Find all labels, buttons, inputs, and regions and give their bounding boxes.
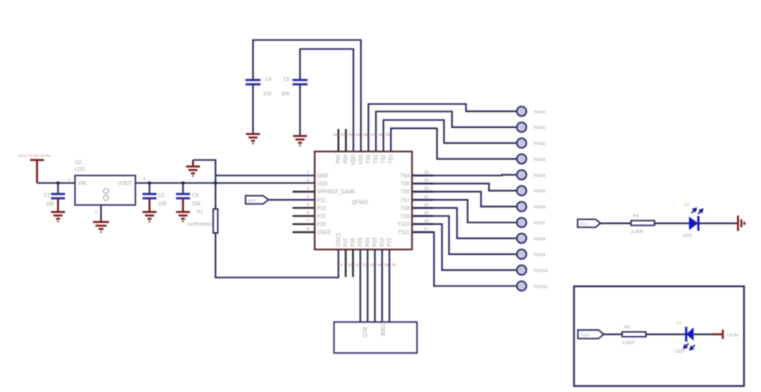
IC top rotated labels (336, 154, 395, 165)
svg-text:26: 26 (378, 132, 383, 137)
svg-text:31: 31 (340, 132, 345, 137)
node junction R1 (214, 181, 217, 184)
svg-text:12: 12 (362, 262, 367, 267)
svg-text:R5: R5 (624, 325, 630, 330)
svg-text:LED: LED (675, 349, 685, 354)
svg-text:25: 25 (385, 132, 390, 137)
svg-text:PAD9: PAD9 (534, 252, 546, 257)
svg-text:TS9: TS9 (400, 214, 409, 220)
capacitor C1 (44, 183, 65, 211)
pad PAD3 (517, 154, 546, 164)
power input VCC label (18, 153, 51, 158)
wire R2 to LED (655, 222, 690, 224)
svg-text:PAD4: PAD4 (534, 173, 546, 178)
svg-text:22: 22 (424, 186, 429, 191)
svg-text:R1: R1 (197, 210, 204, 216)
svg-text:104: 104 (192, 202, 201, 208)
wire pin27 to PAD1 (376, 112, 517, 152)
svg-text:TS3: TS3 (389, 154, 395, 163)
svg-text:PAD0: PAD0 (534, 109, 546, 114)
IC right pin numbers (424, 170, 429, 232)
svg-text:PAD1: PAD1 (534, 125, 546, 130)
capacitor C5 rail (300, 49, 353, 152)
pin stub 7 (293, 223, 315, 225)
demo box frame (574, 286, 744, 386)
ground rotated right (738, 216, 744, 232)
svg-text:32: 32 (333, 132, 338, 137)
wire TS9 to PAD9 (412, 216, 517, 254)
wire flag to pin4 (269, 199, 315, 201)
node junction C3 (181, 181, 184, 184)
svg-text:P25: P25 (358, 237, 364, 246)
svg-text:TS8: TS8 (400, 206, 409, 212)
svg-text:17: 17 (424, 226, 429, 231)
svg-text:LDO: LDO (75, 167, 85, 173)
wires bottom pins to connector (360, 250, 389, 323)
svg-text:TS4: TS4 (400, 174, 409, 180)
wire TS11 to PAD11 (412, 232, 517, 286)
pad PAD6 (517, 202, 546, 212)
ground elbow symbol (186, 160, 200, 177)
wire TS7 to PAD7 (412, 200, 517, 223)
svg-text:C5: C5 (283, 77, 290, 83)
svg-text:TS7: TS7 (400, 198, 409, 204)
wire flag to R2 (601, 222, 632, 224)
wire TS4 to PAD4 (412, 174, 517, 177)
net flag RST (246, 196, 269, 204)
svg-text:104: 104 (281, 92, 290, 98)
IC left pin numbers (307, 170, 310, 232)
svg-text:28: 28 (363, 132, 368, 137)
wire ground elbow (193, 160, 216, 183)
svg-text:BCD: BCD (361, 327, 367, 338)
MCU U1 QFN32 (315, 152, 412, 250)
svg-text:P11: P11 (317, 198, 326, 204)
svg-text:P21: P21 (387, 237, 393, 246)
svg-text:CODE: CODE (379, 322, 385, 337)
svg-text:21: 21 (424, 194, 429, 199)
svg-text:D2: D2 (684, 202, 690, 207)
pin stub 5 (293, 207, 315, 209)
pad PAD0 (517, 107, 546, 117)
IC bottom pin numbers (340, 262, 396, 267)
pad PAD2 (517, 138, 546, 148)
wire R1 to IC bottom pin (216, 233, 339, 278)
svg-text:TS11: TS11 (398, 230, 410, 236)
svg-text:P22: P22 (380, 237, 386, 246)
svg-text:PAD7: PAD7 (534, 221, 546, 226)
pin stub 3 (293, 191, 315, 193)
IC right pin stubs (412, 176, 433, 233)
svg-text:TS6: TS6 (400, 190, 409, 196)
svg-text:PAD3: PAD3 (534, 157, 546, 162)
svg-text:TS1: TS1 (374, 154, 380, 163)
regulator U2 LDO (68, 160, 146, 214)
ground under U2 (93, 222, 109, 233)
svg-text:VDD: VDD (317, 182, 328, 188)
svg-text:30: 30 (348, 132, 353, 137)
ground under C2 (143, 212, 157, 222)
wire TS6 to PAD6 (412, 192, 517, 207)
power bar +3.3V (723, 330, 739, 339)
svg-text:U2: U2 (75, 160, 82, 166)
node junction C2 (148, 181, 151, 184)
wire power to LDO (37, 182, 75, 184)
svg-text:105: 105 (158, 202, 167, 208)
ground under C1 (51, 212, 65, 222)
svg-text:OSC1: OSC1 (336, 233, 342, 247)
svg-text:120R(1R8G): 120R(1R8G) (187, 222, 213, 227)
IC top pin stubs 32,31 (338, 129, 346, 152)
svg-text:PAD2: PAD2 (534, 141, 546, 146)
wire flag to R5 (604, 333, 623, 335)
net flag P31 (578, 219, 601, 227)
pin stub 6 (293, 215, 315, 217)
svg-text:P04: P04 (344, 154, 350, 163)
svg-text:VCC=2.4V~5.5V: VCC=2.4V~5.5V (18, 153, 51, 158)
wire TS5 to PAD5 (412, 184, 517, 191)
connector ICD box (334, 322, 417, 353)
LDO ground pin wire (100, 205, 102, 221)
svg-text:23: 23 (424, 178, 429, 183)
pad PAD9 (517, 249, 546, 259)
wire TS8 to PAD8 (412, 208, 517, 238)
resistor R2 (631, 213, 655, 234)
svg-text:P3.0: P3.0 (581, 332, 590, 337)
ground under C3 (176, 212, 190, 222)
svg-text:2.2KR: 2.2KR (622, 340, 635, 345)
svg-text:PAD11: PAD11 (534, 284, 548, 289)
resistor R1 (187, 183, 217, 233)
svg-text:P20: P20 (317, 222, 326, 228)
svg-text:TS0: TS0 (366, 154, 372, 163)
net flag P30 (578, 330, 604, 339)
svg-text:19: 19 (424, 210, 429, 215)
pad PAD7 (517, 218, 546, 228)
svg-text:PAD6: PAD6 (534, 205, 546, 210)
svg-text:P13: P13 (317, 206, 326, 212)
pad PAD11 (517, 281, 548, 291)
svg-text:VDD: VDD (351, 154, 357, 165)
wire LED to ground (698, 222, 737, 224)
pad PAD10 (517, 265, 549, 275)
svg-text:VPP/RST_GA3B: VPP/RST_GA3B (317, 190, 355, 196)
svg-text:QFN32: QFN32 (352, 200, 368, 206)
wire TS10 to PAD10 (412, 224, 517, 270)
pad PAD8 (517, 234, 546, 244)
power bar symbol (30, 160, 44, 183)
svg-text:TS2: TS2 (381, 154, 387, 163)
ground under C5 (293, 136, 307, 146)
pin stub 8 (293, 231, 315, 233)
wire pin26 to PAD2 (383, 120, 517, 152)
svg-text:13: 13 (370, 262, 375, 267)
wire GND to IC pin1 (216, 175, 315, 177)
capacitor C4 rail (253, 40, 361, 152)
svg-text:2.2KR: 2.2KR (631, 229, 644, 234)
svg-text:+3.3V: +3.3V (727, 332, 739, 337)
svg-text:C4: C4 (265, 77, 272, 83)
svg-text:VIN: VIN (78, 181, 87, 187)
LED D2 (683, 202, 703, 238)
IC top pin numbers (333, 132, 391, 137)
IC bottom rotated labels (336, 233, 393, 247)
svg-text:P05: P05 (336, 154, 342, 163)
svg-text:LED: LED (683, 233, 693, 238)
capacitor C4 (246, 77, 272, 133)
svg-text:PAD5: PAD5 (534, 189, 546, 194)
svg-text:16: 16 (392, 262, 397, 267)
svg-text:D3: D3 (676, 321, 682, 326)
svg-text:29: 29 (355, 132, 360, 137)
svg-text:VOUT: VOUT (118, 181, 132, 187)
svg-text:P24: P24 (365, 237, 371, 246)
pad PAD4 (517, 170, 546, 180)
svg-text:R2: R2 (633, 213, 639, 218)
svg-text:PAD8: PAD8 (534, 236, 546, 241)
svg-text:P26: P26 (351, 237, 357, 246)
svg-text:P3.1: P3.1 (580, 221, 589, 226)
capacitor C3 (176, 183, 201, 211)
capacitor C2 (143, 183, 167, 211)
LED D3 (675, 321, 695, 354)
svg-text:RST: RST (248, 198, 257, 203)
wire pin28 to PAD0 (368, 104, 517, 152)
svg-text:OSC0: OSC0 (317, 230, 331, 236)
svg-text:P23: P23 (373, 237, 379, 246)
svg-text:VSS: VSS (359, 154, 365, 165)
svg-text:GND: GND (317, 174, 329, 180)
svg-text:20: 20 (424, 202, 429, 207)
pad PAD5 (517, 186, 546, 196)
wire LED to power (694, 333, 723, 335)
svg-text:P21: P21 (317, 214, 326, 220)
svg-text:P27: P27 (343, 237, 349, 246)
svg-text:104: 104 (263, 92, 272, 98)
svg-text:18: 18 (424, 218, 429, 223)
wire R5 to LED (646, 333, 686, 335)
svg-text:24: 24 (424, 170, 429, 175)
ground under C4 (246, 134, 260, 144)
svg-text:TS10: TS10 (398, 222, 410, 228)
svg-text:TS5: TS5 (400, 182, 409, 188)
VDD rail wire (135, 182, 314, 184)
svg-text:105: 105 (46, 202, 55, 208)
wire pin25 to PAD3 (391, 128, 517, 159)
resistor R5 (622, 325, 646, 346)
svg-text:PAD10: PAD10 (534, 268, 548, 273)
svg-text:C2: C2 (158, 193, 165, 199)
svg-text:27: 27 (370, 132, 375, 137)
node junction C1 (56, 181, 59, 184)
capacitor C5 (281, 77, 308, 135)
pad PAD1 (517, 122, 546, 132)
svg-text:C3: C3 (192, 193, 199, 199)
IC bottom pin stubs 10,11 (346, 250, 353, 278)
svg-text:C1: C1 (44, 193, 51, 199)
